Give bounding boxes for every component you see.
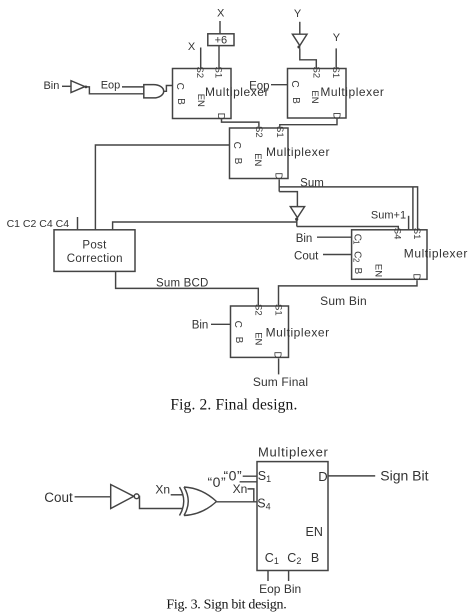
wire inverter to XOR: [139, 496, 183, 508]
wire C1 stub: [267, 571, 269, 582]
wire +6 to U1 S1: [218, 46, 220, 69]
svg-text:X: X: [217, 7, 225, 19]
svg-text:S1: S1: [273, 304, 284, 316]
svg-text:Multiplexer: Multiplexer: [404, 247, 468, 261]
wire U3 D stem: [278, 180, 280, 192]
svg-text:Post: Post: [82, 239, 107, 251]
svg-text:B: B: [233, 337, 244, 344]
svg-text:Y: Y: [294, 8, 302, 20]
wire inverter to U2 S2: [300, 48, 317, 68]
wire AND to U1 C: [164, 86, 173, 92]
svg-text:Sign Bit: Sign Bit: [380, 468, 428, 484]
svg-text:S2: S2: [194, 67, 205, 79]
svg-text:Y: Y: [333, 32, 341, 44]
post correction block: [54, 230, 135, 272]
svg-text:Multiplexer: Multiplexer: [320, 85, 384, 99]
svg-text:D: D: [215, 113, 226, 120]
svg-text:Sum Bin: Sum Bin: [320, 294, 367, 308]
svg-text:S1: S1: [330, 67, 341, 79]
svg-text:Sum Final: Sum Final: [253, 375, 308, 389]
svg-text:C1 C2 C4 C4: C1 C2 C4 C4: [7, 218, 70, 230]
wire: [219, 21, 221, 34]
svg-text:C: C: [174, 83, 185, 90]
buffer (Bin): [71, 81, 87, 93]
svg-text:Eop: Eop: [259, 582, 281, 596]
svg-text:D: D: [410, 273, 421, 280]
svg-text:Fig. 3. Sign bit design.: Fig. 3. Sign bit design.: [166, 598, 286, 613]
svg-text:EN: EN: [309, 90, 320, 103]
node "0" constants: [208, 468, 243, 490]
svg-text:S2: S2: [253, 126, 264, 138]
svg-text:EN: EN: [252, 153, 263, 166]
wire: [299, 22, 301, 34]
svg-text:C: C: [232, 321, 243, 328]
wire: [171, 494, 183, 496]
svg-text:C1: C1: [265, 551, 279, 566]
wire U1 D to U3 S2: [222, 120, 259, 129]
svg-text:S1: S1: [411, 228, 422, 240]
svg-text:S1: S1: [213, 67, 224, 79]
multiplexer U1: [173, 67, 270, 120]
svg-text:B: B: [175, 98, 186, 105]
svg-text:2: 2: [351, 258, 360, 263]
svg-text:S2: S2: [310, 67, 321, 79]
svg-text:Sum BCD: Sum BCD: [156, 278, 209, 290]
svg-text:Eop: Eop: [249, 81, 269, 93]
multiplexer U5: [231, 304, 330, 359]
wire D to Sign Bit: [328, 475, 375, 477]
svg-text:S4: S4: [392, 228, 403, 240]
wire Sum to U4 S1: [279, 187, 417, 230]
svg-text:S4: S4: [257, 496, 270, 511]
svg-text:Bin: Bin: [43, 80, 59, 92]
svg-text:Xn: Xn: [233, 482, 248, 496]
wire: [200, 48, 202, 69]
multiplexer U3: [230, 126, 331, 180]
XOR gate U7: [180, 487, 217, 516]
wire buffer to AND gate: [87, 87, 144, 94]
svg-text:B: B: [311, 551, 319, 565]
svg-text:Fig. 2. Final design.: Fig. 2. Final design.: [170, 397, 297, 414]
wire: [335, 48, 337, 68]
svg-text:B: B: [232, 158, 243, 165]
svg-text:B: B: [290, 97, 301, 104]
svg-text:Bin: Bin: [284, 582, 301, 596]
wire parallel vertical: [412, 187, 414, 230]
wire: [75, 496, 111, 498]
wire tick: [77, 217, 79, 229]
svg-text:Cout: Cout: [294, 251, 319, 263]
wire Xn hook: [248, 489, 254, 502]
svg-text:Xn: Xn: [155, 482, 170, 496]
wire Sum BCD to U5 S2: [116, 271, 259, 306]
svg-text:EN: EN: [306, 525, 323, 539]
wire inverter down: [296, 221, 298, 227]
wire C2 stub: [288, 571, 290, 582]
svg-text:D: D: [330, 112, 341, 119]
svg-text:S2: S2: [252, 304, 263, 316]
wire: [323, 254, 352, 256]
svg-text:EN: EN: [372, 264, 383, 277]
AND gate: [144, 85, 164, 98]
+6 adder block: [208, 34, 234, 47]
svg-text:X: X: [188, 41, 196, 53]
svg-text:Eop: Eop: [101, 80, 121, 92]
svg-text:Multiplexer: Multiplexer: [266, 145, 330, 159]
svg-text:Cout: Cout: [44, 490, 73, 505]
wire XOR to S4: [217, 501, 258, 503]
svg-text:Bin: Bin: [296, 233, 313, 245]
svg-text:D: D: [273, 172, 284, 179]
wire U2 D to U3 S1: [280, 119, 337, 128]
svg-text:C: C: [231, 142, 242, 149]
wire Sum+1 to U4 S4: [297, 227, 399, 230]
wire: [62, 85, 71, 87]
inverter U6: [111, 485, 139, 509]
svg-text:Sum+1: Sum+1: [371, 210, 406, 222]
svg-text:Multiplexer: Multiplexer: [266, 326, 330, 340]
wire U5 D stem: [278, 359, 280, 375]
multiplexer U2: [288, 67, 385, 120]
svg-text:S1: S1: [258, 469, 271, 484]
inverter (Sum+1): [290, 207, 304, 221]
svg-text:D: D: [272, 351, 283, 358]
wire stub below Sum+1: [408, 216, 410, 230]
inverter (Y): [292, 34, 307, 48]
multiplexer U4: [351, 228, 468, 281]
svg-text:Correction: Correction: [67, 253, 123, 265]
multiplexer U8: [257, 445, 329, 571]
wire U3 C to Post Correction: [95, 145, 229, 230]
svg-text:1: 1: [351, 240, 360, 245]
wire: [271, 84, 288, 86]
wire constants to S1: [240, 476, 257, 482]
svg-text:C2: C2: [287, 551, 301, 566]
svg-text:+6: +6: [215, 35, 228, 47]
svg-text:C: C: [289, 80, 300, 87]
wire: [122, 86, 144, 88]
svg-text:Bin: Bin: [192, 319, 209, 331]
svg-text:S1: S1: [274, 126, 285, 138]
wire U4 D to U5 S1: [279, 280, 418, 306]
svg-text:EN: EN: [253, 332, 264, 345]
wire U3 D to inverter: [279, 192, 297, 207]
wire: [211, 323, 231, 325]
svg-text:D: D: [318, 469, 327, 484]
wire to Post Correction top: [113, 222, 297, 230]
svg-text:Sum: Sum: [300, 178, 324, 190]
svg-text:Multiplexer: Multiplexer: [258, 445, 329, 460]
wire: [317, 236, 352, 238]
svg-text:B: B: [352, 267, 363, 274]
